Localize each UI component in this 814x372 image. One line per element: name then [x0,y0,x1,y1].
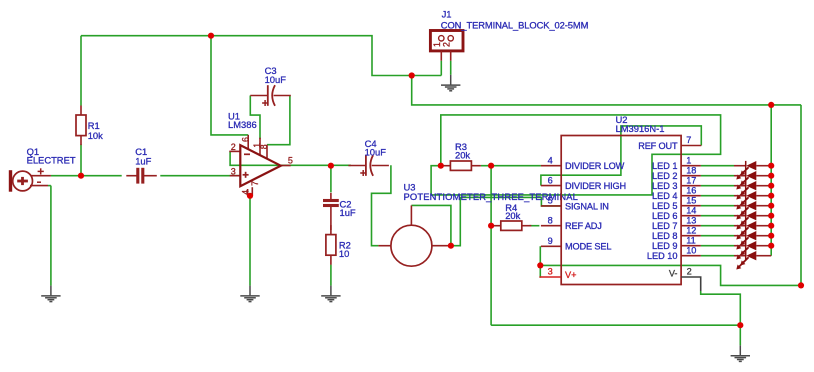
potentiometer U3 [378,205,451,266]
ground R2 [321,286,340,302]
svg-text:LED 5: LED 5 [652,201,678,211]
wire U2 REF OUT to DIVIDER HIGH [541,126,701,186]
junction LED 5 anode [768,203,774,209]
U2 pin 5 SIGNAL IN lead [541,205,561,207]
wire mic+ to C1 [51,175,122,177]
wire J1 pin 1 drop [440,61,442,76]
op-amp U1 LM386 [229,135,290,196]
wire R1 top to V+ rail [80,36,82,106]
junction LED 3 anode [768,183,774,189]
wire V+ rail to op-amp pin 6 [211,36,248,135]
svg-text:LED 2: LED 2 [652,171,678,181]
junction op-amp output [328,163,334,169]
LED 6 [734,211,771,230]
svg-text:1: 1 [686,155,691,165]
microphone Q1 ELECTRET [11,168,51,191]
wire R3 node to U2 DIVIDER LOW [481,165,541,167]
junction LED 4 anode [768,193,774,199]
svg-text:11: 11 [686,235,696,245]
svg-text:5: 5 [288,156,293,166]
ground op-amp [240,286,259,302]
capacitor C3 [250,85,290,106]
svg-text:6: 6 [240,137,250,142]
svg-text:13: 13 [686,215,696,225]
svg-text:V-: V- [669,269,678,279]
wire U2 to LED 7 [701,225,734,227]
svg-text:9: 9 [548,236,553,246]
capacitor C1 [126,168,157,184]
svg-text:2: 2 [441,42,451,47]
svg-text:18: 18 [686,165,696,175]
wire J1 pin 2 to ground [450,61,452,75]
wire op-amp pin 2 to output node [230,151,331,165]
ground J1 [441,75,460,91]
svg-text:LED 6: LED 6 [652,211,678,221]
LED 7 [734,221,771,240]
svg-text:V+: V+ [565,270,577,280]
junction J1 V+ [409,72,415,78]
wire U2 to LED 6 [701,215,734,217]
wire R2 to ground [330,265,332,286]
svg-text:3: 3 [231,167,236,177]
svg-text:10: 10 [686,245,696,255]
svg-text:10: 10 [339,248,349,259]
junction R3 right [488,163,494,169]
svg-text:16: 16 [686,185,696,195]
svg-text:LED 9: LED 9 [652,241,678,251]
svg-text:15: 15 [686,195,696,205]
wire pot node to U2 SIGNAL IN [451,197,561,245]
junction V- ground [737,322,743,328]
U2 pin 1 LED 1 lead [681,165,701,167]
wire divider low rail down [490,166,492,326]
wire R1 bottom to mic node [80,144,82,175]
U2 pin 3 V+ lead [539,276,561,278]
svg-text:3: 3 [548,267,553,277]
junction R4 left [488,223,494,229]
junction LED 2 anode [768,173,774,179]
wire output node to C2 [330,166,332,193]
U2 pin 7 REF OUT lead [681,145,701,147]
svg-text:CON_TERMINAL_BLOCK_02-5MM: CON_TERMINAL_BLOCK_02-5MM [441,20,589,31]
resistor R1 [76,106,86,146]
svg-text:10uF: 10uF [265,74,287,85]
U2 pin 6 DIVIDER HIGH lead [541,185,561,187]
resistor R2 [326,225,336,265]
U2 pin 4 DIVIDER LOW lead [541,165,561,167]
wire LED anode rail [770,105,772,256]
U2 pin 16 LED 4 lead [681,195,701,197]
LED 4 [734,191,771,210]
svg-text:8: 8 [548,215,553,225]
wire REF divider ring net [431,115,720,195]
wire bottom rail to V- node [491,324,740,326]
U2 pin 18 LED 2 lead [681,175,701,177]
junction LED 9 anode [768,243,774,249]
svg-text:LM3916N-1: LM3916N-1 [616,123,665,134]
junction V+ rail op-amp [208,33,214,39]
U2 pin 14 LED 6 lead [681,215,701,217]
wire V- to ground [701,291,741,345]
wire op-amp ground drop [249,196,251,286]
wire mic- stub [48,185,51,187]
svg-text:20k: 20k [455,150,470,161]
svg-text:SIGNAL IN: SIGNAL IN [565,201,609,211]
U2 pin 12 LED 8 lead [681,235,701,237]
svg-text:2: 2 [231,142,236,152]
svg-text:6: 6 [548,175,553,185]
wire output node to C4 [331,164,351,166]
svg-text:10k: 10k [88,130,103,141]
junction LED rail top [768,102,774,108]
junction LED 7 anode [768,223,774,229]
svg-text:1uF: 1uF [340,207,356,218]
wire mic- to ground [50,186,52,286]
U2 pin 8 REF ADJ lead [541,225,561,227]
LED 10 [734,251,771,270]
svg-text:ELECTRET: ELECTRET [27,155,76,166]
wire V+ from J1 to LED rail [412,76,801,105]
wire U2 to LED 9 [701,245,734,247]
junction pot wiper [448,243,454,249]
svg-text:REF ADJ: REF ADJ [565,221,602,231]
svg-text:REF OUT: REF OUT [638,141,678,151]
wire U2 to LED 2 [701,175,734,177]
svg-text:5: 5 [548,196,553,206]
junction V+ corner [798,282,804,288]
junction mic R1 C1 [78,173,84,179]
svg-text:4: 4 [548,155,553,165]
svg-text:7: 7 [250,181,260,186]
svg-text:MODE SEL: MODE SEL [565,242,611,252]
wire U2 to LED 1 [701,165,734,167]
LED 5 [734,201,771,220]
svg-text:J1: J1 [442,9,452,20]
svg-text:LM386: LM386 [228,119,257,130]
U2 pin 11 LED 9 lead [681,245,701,247]
LED 2 [734,171,771,190]
svg-text:2: 2 [687,267,692,277]
ground mic [41,286,60,302]
connector J1 [430,31,463,61]
svg-text:LED 10: LED 10 [647,251,678,261]
wire C3 left to op-amp pin 1 [250,96,260,140]
capacitor C2 [323,193,339,230]
junction op-amp ground pins [247,193,253,199]
resistor R4 [491,221,531,230]
svg-text:14: 14 [686,205,696,215]
junction U2 V+ mode [537,262,543,268]
LED 8 [734,231,771,250]
junction R3 left [438,163,444,169]
svg-text:LED 1: LED 1 [652,161,678,171]
svg-text:LED 7: LED 7 [652,221,678,231]
wire U2 to LED 8 [701,235,734,237]
svg-text:20k: 20k [505,210,520,221]
U2 pin 9 MODE SEL lead [541,245,561,247]
svg-text:DIVIDER LOW: DIVIDER LOW [565,161,625,171]
wire C4 to pot left terminal [372,165,391,245]
svg-text:10uF: 10uF [365,147,387,158]
ground V- [731,345,750,361]
wire V+ rail to U2 V+ pin [540,105,801,286]
wire U2 to LED 5 [701,205,734,207]
wire V+ top from R1 to J1 pin 1 [81,36,441,76]
IC U2 LM3916N-1 [561,136,681,285]
junction LED 1 anode [768,163,774,169]
wire MODE SEL V+ join [538,246,541,277]
LED 3 [734,181,771,200]
junction LED 8 anode [768,233,774,239]
svg-text:LED 4: LED 4 [652,191,678,201]
wire R4 to U2 REF ADJ [529,225,539,227]
svg-text:17: 17 [686,175,696,185]
svg-text:7: 7 [686,135,691,145]
svg-text:1uF: 1uF [135,156,151,167]
wire op-amp pins 4 7 join [248,195,253,197]
U2 pin 10 LED 10 lead [681,255,701,257]
svg-text:LED 8: LED 8 [652,231,678,241]
svg-text:12: 12 [686,225,696,235]
svg-text:LED 3: LED 3 [652,181,678,191]
svg-text:DIVIDER HIGH: DIVIDER HIGH [565,181,626,191]
U2 pin 17 LED 3 lead [681,185,701,187]
LED 9 [734,241,771,260]
svg-text:8: 8 [259,144,269,149]
wire C3 right to op-amp pin 8 [267,96,290,145]
junction LED 6 anode [768,213,774,219]
U2 pin 2 V- lead [681,277,701,291]
U2 pin 13 LED 7 lead [681,225,701,227]
resistor R3 [441,161,481,170]
wire U2 to LED 10 [701,255,734,257]
wire U2 to LED 4 [701,195,734,197]
wire C1 to op-amp pin 3 [160,175,240,177]
capacitor C4 [348,155,389,176]
LED 1 [734,161,771,180]
wire U2 to LED 3 [701,185,734,187]
wire pot wiper to pot right node [411,205,451,245]
U2 pin 15 LED 5 lead [681,205,701,207]
